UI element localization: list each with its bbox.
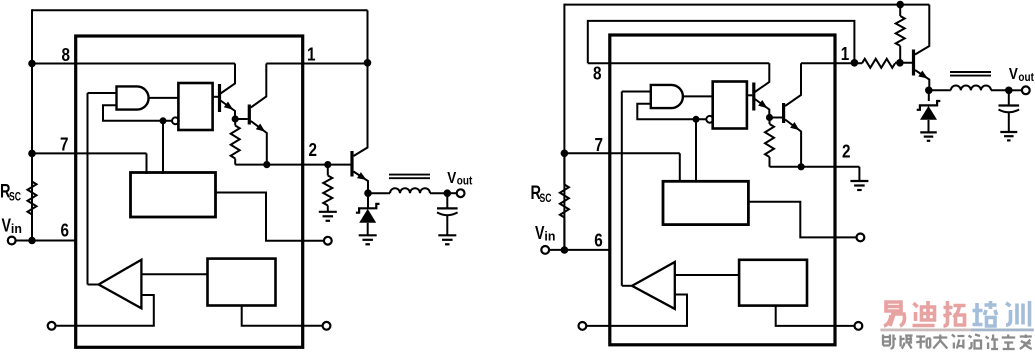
svg-text:V: V (1009, 66, 1018, 83)
svg-text:SC: SC (9, 191, 21, 203)
svg-text:2: 2 (842, 142, 851, 162)
svg-text:in: in (11, 222, 22, 236)
svg-text:SC: SC (540, 193, 552, 205)
svg-text:V: V (447, 170, 456, 187)
svg-text:2: 2 (309, 140, 318, 160)
svg-text:1: 1 (841, 44, 850, 64)
svg-text:7: 7 (595, 135, 604, 155)
svg-text:in: in (544, 230, 555, 244)
svg-text:out: out (457, 174, 473, 188)
svg-text:1: 1 (307, 45, 316, 65)
svg-text:out: out (1018, 70, 1034, 84)
svg-text:6: 6 (61, 220, 70, 240)
svg-text:8: 8 (62, 45, 71, 65)
svg-text:7: 7 (60, 134, 69, 154)
svg-text:6: 6 (594, 230, 603, 250)
svg-text:8: 8 (593, 64, 602, 84)
